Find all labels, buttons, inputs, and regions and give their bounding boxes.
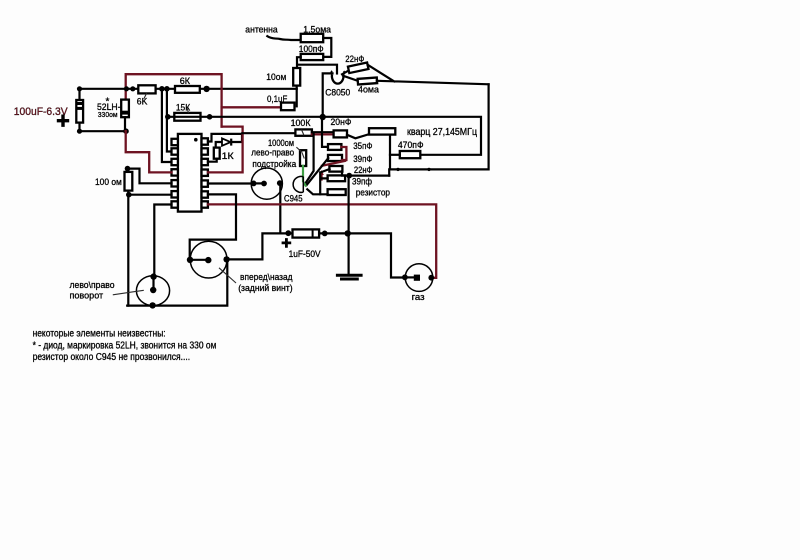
pin L3 (172, 159, 178, 165)
svg-text:4ома: 4ома (358, 84, 380, 95)
capacitor 0,1uF (281, 103, 295, 111)
pin R2 (202, 148, 208, 154)
transistor C945 (293, 176, 303, 192)
svg-text:некоторые элементы неизвестны:: некоторые элементы неизвестны: (33, 328, 166, 339)
wire cap right rail to gaz (319, 233, 405, 277)
svg-text:резистор: резистор (356, 188, 390, 199)
antenna lead-in (267, 36, 300, 40)
pin R7 (202, 201, 208, 207)
op-amp IC U1 body (178, 134, 202, 212)
wire pin R5 to trim motor (208, 182, 254, 184)
wire main top rail (80, 88, 297, 90)
wire red supply box (126, 74, 222, 126)
node C8050 emitter on rail (320, 114, 326, 120)
node ground crossing (345, 230, 351, 236)
capacitor 22nF tilted (348, 63, 369, 74)
wire 22nF/4oma join to outer rect (368, 65, 489, 85)
resistor 6K first (138, 85, 155, 93)
resistor 100 om (126, 169, 129, 195)
wire pin R6 to forward motor (190, 194, 236, 259)
svg-text:20нФ: 20нФ (331, 117, 352, 128)
capacitor 1uF-50V (293, 229, 320, 237)
resistor 6K second (175, 86, 200, 93)
svg-text:6К: 6К (180, 76, 191, 87)
wire 22nF left to riser (320, 169, 329, 194)
ground (336, 274, 363, 277)
svg-text:резистор около С945 не прозвон: резистор около С945 не прозвонился.... (33, 352, 191, 363)
node small on bottom edge (396, 168, 399, 171)
wire red pin R7 to gaz (208, 204, 436, 277)
svg-text:подстройка: подстройка (252, 159, 296, 170)
motor forward (vpered/nazad) (190, 241, 227, 278)
resistor 1000om vertical (300, 150, 306, 166)
wire C8050 emitter down to rail (323, 73, 333, 117)
svg-text:(задний винт): (задний винт) (238, 283, 292, 294)
svg-text:1uF-50V: 1uF-50V (289, 249, 322, 260)
node cap bottom (77, 129, 82, 134)
wire main mid rail to inner rect (167, 117, 481, 155)
pin R5 (202, 180, 208, 186)
capacitor 35pF (328, 144, 341, 150)
svg-text:470пФ: 470пФ (398, 140, 424, 151)
node 15K left (165, 114, 171, 120)
wire red box to pin R4 (208, 127, 243, 173)
svg-text:C8050: C8050 (325, 87, 350, 98)
capacitor 100pF (301, 54, 324, 60)
wire 20nF to crystal (347, 134, 369, 138)
wire 10om bottom to 0,1uF right (296, 86, 298, 107)
wire red box to 0,1uF (222, 106, 281, 108)
svg-text:0,1uF: 0,1uF (267, 94, 287, 105)
svg-text:100К: 100К (291, 118, 311, 129)
pin L7 (172, 201, 178, 207)
svg-text:22нФ: 22нФ (345, 54, 364, 65)
svg-text:15К: 15К (176, 102, 191, 113)
wire trim motor right down (279, 183, 281, 233)
resistor 1K (214, 148, 220, 159)
resistor 15K (174, 113, 200, 121)
svg-text:39пф: 39пф (352, 176, 372, 187)
capacitor 39pF (328, 155, 342, 161)
diode 52LH (121, 100, 129, 118)
pin R3 (202, 159, 208, 165)
capacitor 22nF-2 (329, 166, 342, 172)
svg-text:лево-право: лево-право (251, 148, 294, 159)
svg-text:35пФ: 35пФ (353, 141, 372, 152)
node before cap (285, 230, 291, 236)
node cap right (322, 231, 328, 237)
resistor 100K (295, 129, 312, 135)
capacitor C 100uF-6.3V (78, 89, 80, 131)
transistor C8050 (332, 75, 344, 84)
node 15K right (207, 114, 213, 120)
wire red 35pF-39pF link (341, 147, 346, 160)
wire red arrow trimmer (320, 173, 322, 180)
pin R6 (202, 191, 208, 197)
motor turn (levo/pravo povorot) (136, 276, 169, 306)
wire 100K left to red riser (242, 132, 295, 134)
resistor 4oma tilted (358, 78, 378, 85)
wire pin L7 to povorot motor (154, 205, 171, 277)
node rail crossings (124, 86, 129, 91)
wire cap bottom (80, 130, 127, 132)
pin L5 (172, 180, 178, 186)
wire 100om bottom down (127, 195, 129, 306)
svg-text:газ: газ (412, 292, 425, 303)
capacitor 39pf-2 (328, 175, 346, 181)
plus sign battery (57, 115, 69, 127)
svg-text:6K: 6K (137, 96, 148, 107)
resistor 10om (293, 68, 300, 86)
motor trim (levo-pravo podstroika) (251, 168, 282, 199)
pin R1 (202, 138, 208, 144)
resistor 1,5oma (301, 34, 324, 42)
wire bottom rail (127, 260, 227, 306)
wire red to pin L4 (126, 131, 172, 172)
wire outer rect right and bottom (389, 84, 488, 175)
wire 100om top to pin L5 (128, 169, 172, 184)
wire forward motor right riser to cap rail (227, 233, 293, 259)
wire green base (303, 166, 306, 186)
pin L2 (172, 148, 178, 154)
wire riser rail to 35pF (322, 117, 328, 147)
svg-text:1К: 1К (222, 151, 235, 162)
motor gaz (405, 264, 433, 292)
svg-text:вперед\назад: вперед\назад (240, 272, 293, 283)
svg-text:поворот: поворот (70, 290, 104, 301)
wire 1K bottom to pin R3 (208, 159, 217, 162)
wire 1,5oma right to 100pF (323, 38, 331, 57)
svg-text:* - диод, маркировка 52LH, зво: * - диод, маркировка 52LH, звонится на 3… (33, 340, 217, 351)
svg-text:кварц 27,145МГц: кварц 27,145МГц (407, 127, 477, 138)
wire riser 100K line to C945 (306, 133, 314, 182)
node 22nF net (346, 173, 352, 179)
svg-text:10ом: 10ом (266, 72, 286, 83)
node 100om top (125, 166, 131, 172)
svg-text:антенна: антенна (245, 25, 278, 36)
pin L6 (172, 191, 178, 197)
wire C8050 to 22nF and 4oma (342, 71, 358, 81)
capacitor 20nF (334, 130, 347, 137)
wire 100om bottom to pin L6 (128, 194, 171, 196)
svg-text:1,5ома: 1,5ома (303, 24, 331, 35)
svg-text:39пФ: 39пФ (353, 154, 372, 165)
node cap top (77, 86, 82, 91)
pin L4 (172, 169, 178, 175)
svg-text:C945: C945 (284, 194, 303, 205)
resistor rezistor (328, 189, 346, 195)
wire C945 emitter to rezistor (307, 189, 327, 194)
wire 100K to 20nF black (312, 131, 334, 133)
node 100om bottom (126, 192, 132, 198)
capacitor 470pF (400, 151, 421, 158)
svg-text:100 ом: 100 ом (95, 177, 122, 188)
wire red diagonal to 22nF (322, 161, 345, 166)
crystal XTAL 27,145MHz (369, 128, 395, 134)
wire C945 to 39pF diagonal (307, 158, 329, 185)
svg-text:100пФ: 100пФ (299, 44, 324, 55)
wire risers from rail (162, 89, 172, 162)
wire 100pF left down and to C8050 base (297, 57, 337, 73)
wire 22nF net down to ground (342, 171, 389, 274)
diode D1 near IC (208, 134, 242, 148)
svg-text:330ом: 330ом (98, 110, 118, 119)
pin L1 (172, 139, 178, 145)
svg-text:22нФ: 22нФ (354, 165, 373, 176)
node red-left bottom (123, 128, 129, 134)
pin R4 (202, 170, 208, 176)
wire 100K to 20nF red (312, 133, 334, 135)
svg-text:100uF-6.3V: 100uF-6.3V (14, 106, 68, 118)
wire 470pF left to crystal pin (390, 154, 400, 156)
